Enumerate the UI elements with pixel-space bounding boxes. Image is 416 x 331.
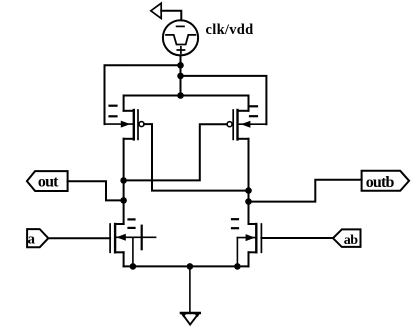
wire ab port to M4 gate: [261, 237, 333, 239]
wire V1 bottom to vdd rail: [180, 55, 182, 95]
node outb junction dots: [245, 187, 252, 205]
port outb: [362, 171, 410, 191]
wire tail to ground: [189, 266, 191, 312]
wire from arrow to voltage source top: [161, 11, 181, 20]
wire outb port to node outb: [249, 180, 362, 202]
wire M3 source down: [123, 252, 125, 266]
tail rail junction dots: [130, 263, 241, 270]
unconnected-pin arrow marker: [151, 3, 161, 18]
wire M2 drain down to M4 drain (node outb): [248, 139, 250, 224]
ground: [181, 313, 200, 325]
wire vdd rail to M2 bulk: [181, 76, 267, 124]
wire M1 gate to M2 drain (cross-couple B): [144, 124, 248, 191]
wire M2 gate to M1 drain (cross-couple A): [124, 124, 227, 180]
svg-text:clk/vdd: clk/vdd: [206, 22, 254, 38]
transistor M1 PMOS left: [105, 106, 145, 140]
svg-text:a: a: [28, 231, 36, 247]
svg-text:outb: outb: [366, 174, 395, 191]
wire M4 source down: [248, 252, 250, 266]
wire M4 bulk to tail rail: [236, 238, 238, 267]
wire M1 drain down to M3 drain (node out): [123, 139, 125, 224]
node out junction dots: [120, 177, 127, 204]
wire vdd rail upper-left to M1 bulk: [105, 65, 181, 124]
port ab: [333, 229, 361, 247]
wire vdd rail to M1/M2 sources: [124, 96, 249, 111]
svg-text:out: out: [38, 173, 59, 190]
port a: [27, 229, 48, 247]
node vdd junction dots: [177, 62, 184, 99]
port out: [27, 171, 68, 191]
tail rail wire: [124, 265, 249, 267]
transistor M3 NMOS left: [110, 219, 156, 252]
wire a port to M3 gate: [48, 237, 110, 239]
svg-text:ab: ab: [344, 233, 358, 248]
transistor M2 PMOS right: [227, 106, 266, 139]
wire out port to node out: [68, 181, 124, 200]
wire M3 bulk to tail rail: [132, 237, 134, 266]
voltage source V1 clk/vdd: [163, 20, 198, 55]
transistor M4 NMOS right: [232, 219, 261, 252]
